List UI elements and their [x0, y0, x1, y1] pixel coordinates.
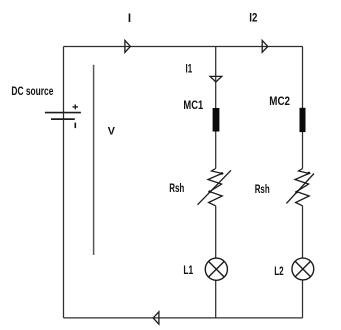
- svg-text:Rsh: Rsh: [255, 184, 270, 196]
- resistor Rsh right vertex dots: [308, 172, 311, 175]
- resistor Rsh left zigzag: [208, 169, 222, 206]
- resistor Rsh right strike line: [286, 174, 314, 204]
- meter MC2 body: [300, 108, 306, 132]
- resistor Rsh left vertex dots: [221, 172, 224, 175]
- lamp L1 cross: [209, 261, 225, 277]
- battery top plate: [45, 112, 81, 114]
- wire middle lower: [215, 280, 217, 318]
- wire middle between Rsh and L1: [215, 206, 217, 258]
- svg-text:I: I: [128, 13, 131, 25]
- svg-text:MC2: MC2: [269, 96, 290, 108]
- lamp L1 circle: [205, 258, 227, 280]
- battery bottom plate: [51, 118, 75, 120]
- lamp L2 circle: [292, 258, 314, 280]
- svg-text:L2: L2: [274, 266, 283, 278]
- svg-text:Rsh: Rsh: [169, 183, 184, 195]
- wire top: [64, 45, 303, 47]
- resistor Rsh left strike line: [198, 170, 232, 205]
- arrow (left) on bottom wire: [153, 312, 159, 324]
- wire right upper: [302, 46, 304, 168]
- arrow I (right) on top wire: [125, 40, 130, 52]
- battery plus sign: [73, 106, 79, 108]
- svg-text:L1: L1: [183, 265, 193, 277]
- resistor Rsh right zigzag: [295, 169, 309, 206]
- arrow I2 (right) on top wire: [262, 40, 268, 52]
- wire bottom: [64, 317, 303, 319]
- battery minus dash: [74, 123, 76, 129]
- svg-text:V: V: [108, 125, 116, 137]
- lamp L2 cross: [295, 261, 310, 276]
- wire middle upper: [215, 46, 217, 168]
- svg-text:DC source: DC source: [11, 86, 53, 98]
- wire right lower: [302, 280, 304, 318]
- svg-text:I2: I2: [249, 12, 257, 24]
- wire right between Rsh and L2: [302, 206, 304, 258]
- arrow I1 (down) on middle branch: [210, 76, 222, 82]
- svg-text:I1: I1: [186, 64, 193, 76]
- wire left: [63, 46, 65, 317]
- svg-text:MC1: MC1: [183, 100, 203, 112]
- voltmeter probe line V: [93, 65, 95, 255]
- meter MC1 body: [213, 108, 220, 132]
